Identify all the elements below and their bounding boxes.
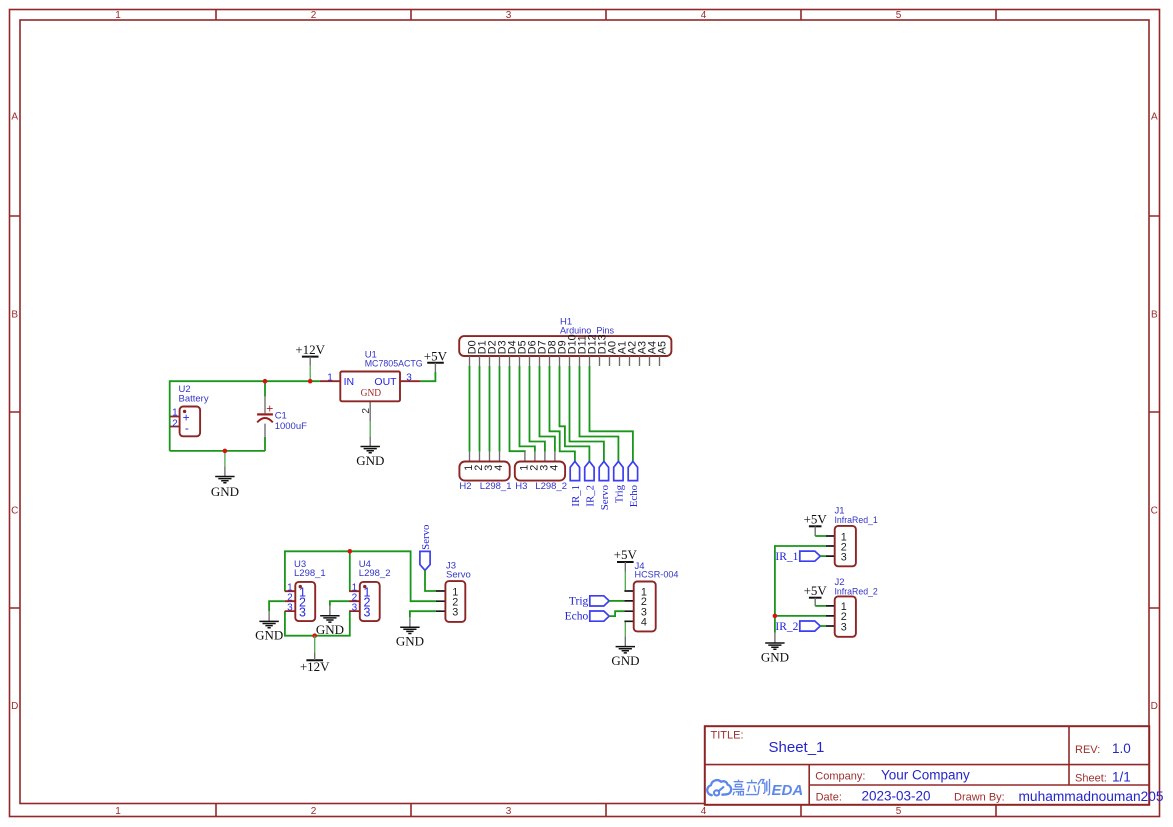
svg-text:+5V: +5V <box>424 348 448 363</box>
connector J1 InfraRed_1 <box>826 506 878 567</box>
svg-text:Sheet_1: Sheet_1 <box>769 739 825 756</box>
svg-text:EDA: EDA <box>772 782 804 799</box>
ground GND U1 <box>356 436 384 468</box>
svg-text:IR_2: IR_2 <box>775 621 798 633</box>
power flag +5V at J4 <box>614 547 638 571</box>
wire D0 to H2 pin 1 <box>469 366 471 452</box>
ground GND U3 <box>255 611 283 643</box>
svg-text:MC7805ACTG: MC7805ACTG <box>365 359 423 370</box>
svg-text:Echo: Echo <box>565 611 589 623</box>
wire U3 pin2 to GND <box>269 601 285 611</box>
wire IR_2 flag to J2 pin3 <box>820 625 826 627</box>
svg-text:4: 4 <box>493 465 505 471</box>
svg-text:1: 1 <box>327 372 333 383</box>
svg-text:4: 4 <box>701 806 707 817</box>
wire Trig flag to J4 pin2 <box>609 600 624 602</box>
svg-text:Trig: Trig <box>614 484 626 503</box>
net flag Echo <box>628 461 640 507</box>
svg-text:HCSR-004: HCSR-004 <box>635 570 679 581</box>
svg-text:+5V: +5V <box>804 583 828 598</box>
junction battery gnd <box>223 449 228 454</box>
svg-text:+: + <box>266 402 273 416</box>
ground GND U4 <box>316 606 344 638</box>
svg-text:Battery: Battery <box>179 394 209 405</box>
wire D8 to IR_1 flag <box>550 366 575 461</box>
net flag IR_2 at J2 <box>775 621 820 633</box>
net flag IR_1 <box>570 461 582 506</box>
wire gnd net J1 pin2 / J2 pin2 <box>775 546 826 633</box>
wire J4 pin4 to GND <box>624 621 626 636</box>
wire U1 pin2 to GND <box>369 421 371 436</box>
svg-text:H2: H2 <box>459 481 471 492</box>
wire Servo flag to J3 pin1 <box>425 570 436 591</box>
wire Echo flag to J4 pin3 <box>609 611 624 616</box>
net flag Servo at J3 <box>420 525 432 571</box>
svg-text:OUT: OUT <box>374 376 397 388</box>
svg-text:Date:: Date: <box>816 791 842 803</box>
wire battery pin2 loop bottom to C1 <box>170 450 265 452</box>
svg-text:GND: GND <box>396 634 424 649</box>
svg-text:B: B <box>1151 310 1158 321</box>
svg-text:5: 5 <box>896 10 902 21</box>
junction +12V bottom <box>312 633 317 638</box>
wire +5V to J2 pin1 <box>815 605 826 607</box>
svg-text:3: 3 <box>452 607 458 619</box>
svg-text:Echo: Echo <box>628 485 640 507</box>
battery U2 <box>170 384 209 436</box>
svg-text:Sheet:: Sheet: <box>1075 773 1107 785</box>
svg-text:Drawn By:: Drawn By: <box>954 791 1005 803</box>
svg-text:TITLE:: TITLE: <box>711 730 744 742</box>
header H1 Arduino_Pins <box>459 316 671 366</box>
svg-text:GND: GND <box>361 388 382 399</box>
wire D3 to H2 pin 4 <box>499 366 501 452</box>
svg-text:3: 3 <box>299 605 306 619</box>
net flag Echo at J4 <box>565 611 610 623</box>
svg-text:+12V: +12V <box>300 659 330 674</box>
svg-text:5: 5 <box>896 806 902 817</box>
title block <box>705 726 1164 805</box>
svg-text:GND: GND <box>316 622 344 637</box>
svg-text:C: C <box>1151 506 1158 517</box>
wire +12V rail: battery pin1 to U1 IN <box>170 381 320 451</box>
wire D12 to Echo flag <box>590 366 633 461</box>
svg-text:InfraRed_2: InfraRed_2 <box>835 587 878 598</box>
wire +12V bottom stem <box>314 636 316 653</box>
svg-text:L298_2: L298_2 <box>359 568 391 579</box>
svg-text:3: 3 <box>352 602 358 613</box>
wire +12V bottom net U3.3 to U4.3 <box>285 611 350 636</box>
ground GND J3 <box>396 617 424 649</box>
svg-text:3: 3 <box>406 372 412 383</box>
svg-text:L298_2: L298_2 <box>535 481 567 492</box>
svg-text:D: D <box>11 701 18 712</box>
wire U4 pin2 to GND <box>330 601 349 605</box>
svg-text:Servo: Servo <box>420 525 432 550</box>
connector U4 L298_2 <box>349 559 390 621</box>
svg-text:D: D <box>1151 701 1158 712</box>
svg-text:2: 2 <box>361 408 372 414</box>
svg-text:3: 3 <box>841 621 847 633</box>
svg-text:1.0: 1.0 <box>1112 741 1131 756</box>
svg-text:Trig: Trig <box>569 596 589 608</box>
header H2 L298_1 <box>459 452 511 492</box>
svg-text:+5V: +5V <box>804 512 828 527</box>
svg-text:C: C <box>11 506 18 517</box>
wire U4 pin1 branch <box>349 551 351 591</box>
power flag +5V at J2 <box>804 583 828 606</box>
svg-text:3: 3 <box>506 806 512 817</box>
wire C1 top lead to rail <box>264 381 266 397</box>
wire IR_1 flag to J1 pin3 <box>820 555 826 557</box>
svg-text:Servo: Servo <box>446 570 471 581</box>
svg-text:3: 3 <box>287 602 293 613</box>
wire net U3.1/U4.1/J3.2 top rail <box>285 551 436 601</box>
svg-text:Servo: Servo <box>599 485 611 510</box>
junction top rail U4 <box>348 549 353 554</box>
svg-text:1: 1 <box>115 806 121 817</box>
connector J4 HCSR-004 <box>624 561 678 631</box>
svg-text:A: A <box>1151 112 1158 123</box>
wire D2 to H2 pin 3 <box>489 366 491 452</box>
junction C1 at rail <box>263 379 268 384</box>
net flag Trig <box>614 461 626 503</box>
net flag IR_1 at J1 <box>775 551 820 563</box>
svg-text:2: 2 <box>172 418 178 429</box>
svg-text:3: 3 <box>841 551 847 563</box>
ground GND J4 <box>611 636 639 668</box>
svg-text:+12V: +12V <box>295 342 325 357</box>
junction J2 pin2 <box>773 614 778 619</box>
svg-text:Your Company: Your Company <box>881 768 970 783</box>
svg-text:GND: GND <box>255 628 283 643</box>
wire D5 to H3 pin 2 <box>520 366 535 452</box>
svg-text:2: 2 <box>311 806 317 817</box>
wire U1 OUT to +5V flag <box>420 372 435 381</box>
junction +12V at rail <box>308 379 313 384</box>
wire D1 to H2 pin 2 <box>479 366 481 452</box>
svg-text:4: 4 <box>701 10 707 21</box>
svg-text:1: 1 <box>115 10 121 21</box>
svg-text:IR_1: IR_1 <box>570 485 582 507</box>
wire D9 to IR_2 flag <box>560 366 590 461</box>
svg-text:1/1: 1/1 <box>1112 770 1131 785</box>
power flag +5V at J1 <box>804 512 828 537</box>
svg-text:InfraRed_1: InfraRed_1 <box>835 515 878 526</box>
svg-text:IR_2: IR_2 <box>585 485 597 507</box>
svg-text:2: 2 <box>311 10 317 21</box>
svg-text:1: 1 <box>172 408 178 419</box>
svg-text:IR_1: IR_1 <box>775 551 798 563</box>
svg-text:2023-03-20: 2023-03-20 <box>862 789 931 804</box>
wire +5V to J1 pin1 <box>815 535 826 537</box>
connector J3 Servo <box>436 560 471 622</box>
svg-text:4: 4 <box>548 465 560 471</box>
svg-text:GND: GND <box>611 653 639 668</box>
logo JLC EDA <box>707 780 731 795</box>
power flag +5V at U1 output <box>424 348 448 372</box>
svg-text:H3: H3 <box>515 481 527 492</box>
power flag +12V <box>295 342 325 366</box>
svg-text:GND: GND <box>761 649 789 664</box>
svg-text:A5: A5 <box>656 341 668 354</box>
svg-text:GND: GND <box>211 484 239 499</box>
svg-text:GND: GND <box>356 453 384 468</box>
wire J3 pin3 to GND <box>410 611 436 617</box>
svg-text:REV:: REV: <box>1075 744 1100 756</box>
svg-text:1000uF: 1000uF <box>275 421 307 432</box>
svg-text:3: 3 <box>506 10 512 21</box>
ground GND battery <box>211 466 239 499</box>
svg-text:L298_1: L298_1 <box>480 481 512 492</box>
svg-text:3: 3 <box>364 605 371 619</box>
svg-text:B: B <box>11 310 18 321</box>
wire D11 to Trig flag <box>580 366 619 461</box>
svg-text:Company:: Company: <box>815 771 865 783</box>
svg-text:L298_1: L298_1 <box>294 568 326 579</box>
wire C1 bottom lead to gnd net <box>264 437 266 451</box>
net flag Trig at J4 <box>569 596 609 608</box>
wire D7 to H3 pin 4 <box>540 366 555 452</box>
regulator U1 MC7805ACTG <box>320 349 423 421</box>
wire battery gnd stem <box>224 451 226 466</box>
net flag IR_2 <box>585 461 597 506</box>
power flag +12V bottom <box>300 653 330 675</box>
ground GND J1/J2 <box>761 633 789 665</box>
wire D6 to H3 pin 3 <box>530 366 545 452</box>
wire +5V to J4 pin1 <box>624 572 626 592</box>
wire +12V flag stem <box>309 366 311 382</box>
svg-text:4: 4 <box>641 617 647 629</box>
svg-text:muhammadnouman205: muhammadnouman205 <box>1019 789 1164 804</box>
svg-text:+5V: +5V <box>614 547 638 562</box>
svg-text:A: A <box>11 112 18 123</box>
svg-text:IN: IN <box>344 376 355 388</box>
wire D10 to Servo flag <box>570 366 604 461</box>
svg-text:-: - <box>185 421 189 435</box>
connector J2 InfraRed_2 <box>826 577 878 637</box>
header H3 L298_2 <box>515 452 567 492</box>
wire D4 to H3 pin 1 <box>510 366 525 452</box>
capacitor C1 1000uF <box>257 397 307 437</box>
net flag Servo <box>599 461 611 510</box>
connector U3 L298_1 <box>285 559 326 621</box>
